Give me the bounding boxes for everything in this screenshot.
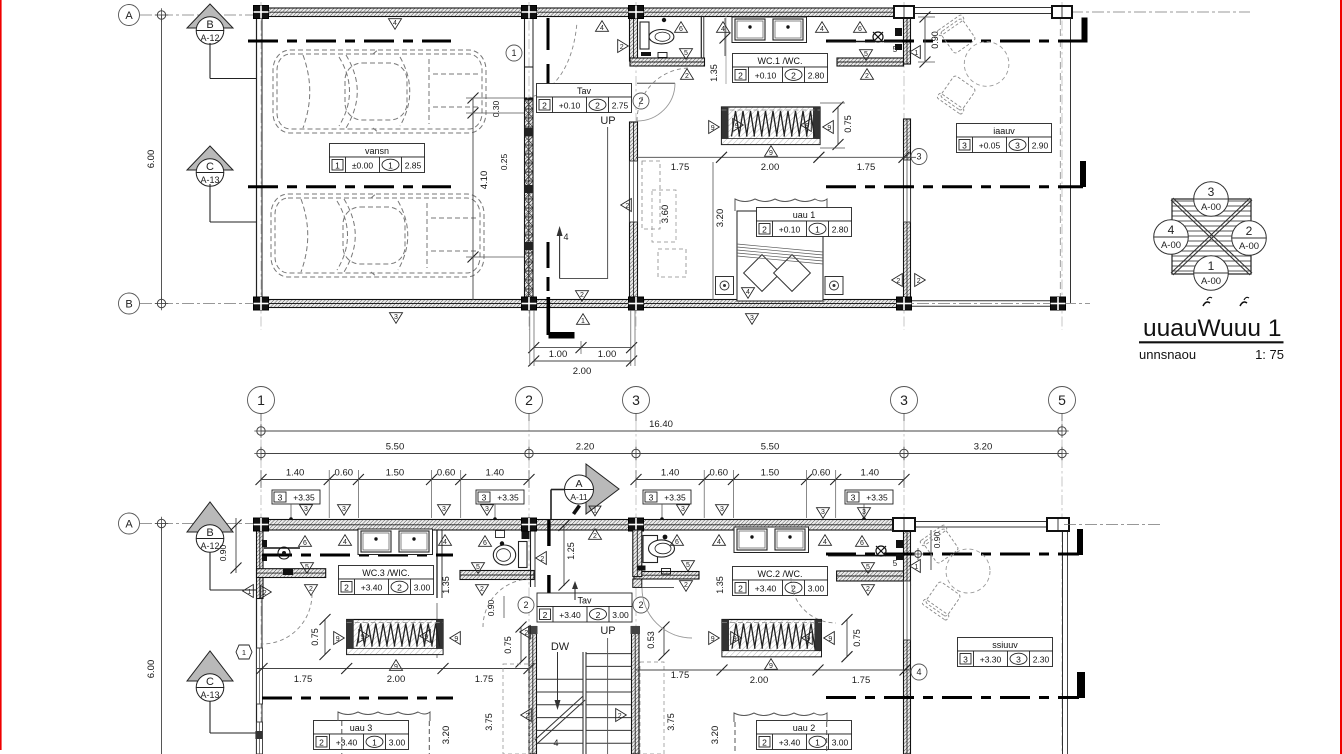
- svg-text:3: 3: [962, 141, 967, 151]
- svg-text:A-00: A-00: [1201, 276, 1221, 287]
- svg-text:vansn: vansn: [365, 146, 389, 156]
- svg-text:WC.2 /WC.: WC.2 /WC.: [758, 569, 803, 579]
- svg-text:3: 3: [851, 493, 856, 503]
- svg-text:9: 9: [361, 634, 365, 641]
- svg-text:6: 6: [679, 26, 683, 33]
- svg-text:3: 3: [485, 506, 489, 513]
- svg-text:5: 5: [476, 564, 480, 571]
- svg-text:1.40: 1.40: [486, 468, 505, 479]
- svg-text:6: 6: [303, 540, 307, 547]
- svg-text:2.80: 2.80: [832, 225, 849, 235]
- svg-text:2: 2: [344, 583, 349, 593]
- svg-text:0.53: 0.53: [646, 631, 656, 649]
- svg-text:2.00: 2.00: [761, 162, 780, 173]
- svg-text:uau 3: uau 3: [350, 723, 373, 733]
- svg-text:C: C: [206, 161, 214, 173]
- svg-text:2: 2: [738, 71, 743, 81]
- svg-text:3: 3: [278, 493, 283, 503]
- svg-text:3: 3: [342, 506, 346, 513]
- svg-text:6.00: 6.00: [146, 660, 157, 679]
- svg-text:5: 5: [305, 564, 309, 571]
- svg-text:0.60: 0.60: [710, 468, 729, 479]
- svg-text:C: C: [206, 676, 214, 688]
- svg-text:2.75: 2.75: [612, 101, 629, 111]
- svg-text:Tav: Tav: [577, 86, 592, 96]
- svg-text:1: 75: 1: 75: [1255, 347, 1284, 362]
- svg-text:4: 4: [746, 289, 750, 296]
- svg-text:2: 2: [263, 590, 267, 597]
- svg-text:0.90: 0.90: [930, 31, 940, 49]
- svg-text:3.00: 3.00: [832, 738, 849, 748]
- svg-text:4.10: 4.10: [479, 171, 490, 190]
- svg-text:+0.10: +0.10: [559, 101, 581, 111]
- svg-text:5.50: 5.50: [761, 442, 780, 453]
- svg-text:uau 1: uau 1: [793, 210, 816, 220]
- svg-text:1: 1: [815, 738, 820, 748]
- svg-text:4: 4: [717, 539, 721, 546]
- svg-text:5.50: 5.50: [386, 442, 405, 453]
- svg-text:3.20: 3.20: [710, 726, 721, 745]
- svg-text:2: 2: [525, 713, 529, 720]
- svg-text:1: 1: [914, 564, 918, 571]
- svg-text:2: 2: [638, 600, 643, 610]
- svg-text:2: 2: [596, 610, 601, 620]
- svg-text:3.75: 3.75: [484, 713, 494, 731]
- svg-text:3.75: 3.75: [666, 713, 676, 731]
- svg-text:2: 2: [865, 73, 869, 80]
- svg-text:B: B: [206, 527, 213, 539]
- svg-text:+3.35: +3.35: [866, 493, 888, 503]
- svg-text:2.00: 2.00: [573, 366, 592, 377]
- svg-text:A: A: [125, 10, 133, 22]
- svg-text:B: B: [206, 19, 213, 31]
- svg-text:2.20: 2.20: [576, 442, 595, 453]
- svg-text:9: 9: [394, 664, 398, 671]
- svg-text:3.20: 3.20: [441, 726, 452, 745]
- svg-text:9: 9: [828, 636, 832, 643]
- svg-text:0.60: 0.60: [437, 468, 456, 479]
- svg-text:1.35: 1.35: [715, 576, 725, 594]
- svg-text:4: 4: [916, 667, 921, 677]
- svg-text:0.90: 0.90: [218, 544, 228, 561]
- svg-text:±0.00: ±0.00: [352, 161, 373, 171]
- svg-text:1: 1: [242, 648, 246, 657]
- svg-text:ssiuuv: ssiuuv: [992, 640, 1018, 650]
- svg-text:3: 3: [963, 655, 968, 665]
- svg-text:2: 2: [620, 44, 624, 51]
- svg-text:1: 1: [257, 392, 265, 408]
- svg-text:9: 9: [769, 663, 773, 670]
- svg-text:6: 6: [858, 26, 862, 33]
- svg-text:1.75: 1.75: [857, 162, 876, 173]
- svg-text:1: 1: [815, 225, 820, 235]
- svg-text:3: 3: [821, 509, 825, 516]
- svg-text:A-13: A-13: [200, 690, 219, 700]
- svg-text:2: 2: [762, 738, 767, 748]
- svg-text:+3.35: +3.35: [497, 493, 519, 503]
- svg-text:2: 2: [618, 713, 622, 720]
- svg-text:3.00: 3.00: [389, 738, 406, 748]
- svg-text:3: 3: [482, 493, 487, 503]
- svg-text:9: 9: [735, 123, 739, 130]
- svg-text:2: 2: [397, 583, 402, 593]
- svg-text:2: 2: [866, 586, 870, 593]
- svg-text:4: 4: [820, 26, 824, 33]
- svg-text:2: 2: [540, 556, 544, 563]
- svg-text:3: 3: [442, 506, 446, 513]
- svg-text:+0.10: +0.10: [755, 71, 777, 81]
- svg-text:3: 3: [632, 392, 640, 408]
- svg-text:2: 2: [896, 278, 900, 285]
- svg-text:+3.40: +3.40: [336, 738, 358, 748]
- svg-text:2.00: 2.00: [750, 675, 769, 686]
- svg-text:9: 9: [769, 150, 773, 157]
- svg-text:+3.30: +3.30: [980, 655, 1002, 665]
- svg-text:2: 2: [738, 584, 743, 594]
- svg-text:3.00: 3.00: [414, 583, 431, 593]
- svg-text:4: 4: [721, 26, 725, 33]
- svg-text:3: 3: [862, 509, 866, 516]
- svg-text:1.40: 1.40: [286, 468, 305, 479]
- svg-text:1.35: 1.35: [709, 64, 719, 82]
- svg-text:3.00: 3.00: [612, 610, 629, 620]
- svg-text:unnsnaou: unnsnaou: [1139, 347, 1196, 362]
- svg-text:9: 9: [424, 634, 428, 641]
- svg-text:1.40: 1.40: [861, 468, 880, 479]
- svg-text:4: 4: [343, 539, 347, 546]
- svg-text:+0.10: +0.10: [779, 225, 801, 235]
- svg-text:0.75: 0.75: [310, 628, 320, 646]
- svg-text:A: A: [125, 519, 133, 531]
- svg-text:3.20: 3.20: [715, 209, 726, 228]
- svg-text:+3.40: +3.40: [361, 583, 383, 593]
- svg-text:1.50: 1.50: [761, 468, 780, 479]
- svg-text:1: 1: [372, 738, 377, 748]
- svg-text:WC.1 /WC.: WC.1 /WC.: [758, 56, 803, 66]
- svg-text:2.80: 2.80: [808, 71, 825, 81]
- svg-text:3.00: 3.00: [808, 584, 825, 594]
- svg-text:2: 2: [685, 73, 689, 80]
- svg-text:9: 9: [806, 636, 810, 643]
- svg-text:2: 2: [625, 203, 629, 210]
- svg-text:3: 3: [900, 392, 908, 408]
- svg-text:+3.35: +3.35: [664, 493, 686, 503]
- svg-text:5: 5: [1058, 392, 1066, 408]
- svg-text:0.90: 0.90: [486, 599, 496, 616]
- svg-text:0.30: 0.30: [491, 100, 501, 117]
- svg-text:1.75: 1.75: [294, 674, 313, 685]
- svg-text:0.25: 0.25: [499, 153, 509, 170]
- svg-text:2: 2: [524, 630, 528, 637]
- svg-text:A-11: A-11: [570, 492, 588, 502]
- svg-text:+3.40: +3.40: [755, 584, 777, 594]
- svg-text:6: 6: [483, 540, 487, 547]
- svg-text:WC.3 /WIC.: WC.3 /WIC.: [362, 568, 410, 578]
- svg-text:iaauv: iaauv: [993, 126, 1015, 136]
- svg-text:5: 5: [893, 45, 898, 54]
- svg-text:1.50: 1.50: [386, 468, 405, 479]
- svg-text:9: 9: [336, 636, 340, 643]
- svg-text:3: 3: [1016, 655, 1021, 665]
- svg-text:2: 2: [1246, 224, 1253, 238]
- svg-text:3: 3: [394, 314, 398, 321]
- svg-text:2.30: 2.30: [1033, 655, 1050, 665]
- svg-text:1.40: 1.40: [661, 468, 680, 479]
- svg-text:A-00: A-00: [1201, 202, 1221, 213]
- svg-text:9: 9: [805, 123, 809, 130]
- svg-text:16.40: 16.40: [649, 419, 673, 430]
- svg-text:9: 9: [454, 636, 458, 643]
- svg-text:3.60: 3.60: [660, 205, 671, 224]
- svg-text:0.75: 0.75: [503, 636, 513, 654]
- svg-text:2: 2: [580, 292, 584, 299]
- svg-text:0.60: 0.60: [335, 468, 354, 479]
- svg-text:4: 4: [443, 539, 447, 546]
- svg-text:4: 4: [553, 738, 558, 748]
- svg-text:A-00: A-00: [1161, 240, 1181, 251]
- svg-text:0.75: 0.75: [852, 629, 862, 647]
- svg-text:2: 2: [523, 600, 528, 610]
- svg-text:+3.40: +3.40: [779, 738, 801, 748]
- svg-text:A: A: [575, 478, 582, 490]
- svg-text:DW: DW: [551, 641, 570, 653]
- svg-text:0.60: 0.60: [812, 468, 831, 479]
- svg-text:UP: UP: [600, 115, 615, 127]
- svg-text:2: 2: [542, 101, 547, 111]
- svg-text:A-12: A-12: [200, 33, 219, 43]
- svg-text:1.00: 1.00: [598, 349, 617, 360]
- svg-text:2: 2: [684, 582, 688, 589]
- svg-text:2: 2: [917, 278, 921, 285]
- svg-text:4: 4: [393, 20, 397, 27]
- svg-text:uau 2: uau 2: [793, 723, 816, 733]
- svg-text:5: 5: [864, 51, 868, 58]
- svg-text:B: B: [125, 299, 132, 311]
- svg-text:3.20: 3.20: [974, 442, 993, 453]
- svg-text:5: 5: [866, 564, 870, 571]
- svg-text:1.75: 1.75: [852, 675, 871, 686]
- svg-text:1.00: 1.00: [549, 349, 568, 360]
- svg-text:4: 4: [1168, 223, 1175, 237]
- svg-text:3: 3: [720, 506, 724, 513]
- svg-text:1: 1: [1208, 259, 1215, 273]
- svg-text:1: 1: [914, 50, 918, 57]
- svg-text:+0.05: +0.05: [979, 141, 1001, 151]
- svg-text:1.75: 1.75: [475, 674, 494, 685]
- svg-text:2: 2: [595, 101, 600, 111]
- svg-text:9: 9: [711, 636, 715, 643]
- svg-text:3: 3: [304, 506, 308, 513]
- svg-text:9: 9: [827, 125, 831, 132]
- svg-text:2: 2: [319, 738, 324, 748]
- svg-text:1: 1: [593, 507, 597, 514]
- svg-text:2: 2: [480, 586, 484, 593]
- svg-text:2.90: 2.90: [1032, 141, 1049, 151]
- svg-text:uuauWuuu 1: uuauWuuu 1: [1143, 315, 1282, 342]
- svg-text:1.25: 1.25: [566, 542, 576, 560]
- svg-text:9: 9: [733, 636, 737, 643]
- svg-text:0.75: 0.75: [843, 115, 853, 133]
- svg-text:3: 3: [916, 152, 921, 162]
- svg-text:2: 2: [791, 71, 796, 81]
- svg-text:1.35: 1.35: [441, 576, 451, 594]
- svg-text:2: 2: [593, 533, 597, 540]
- svg-text:9: 9: [711, 125, 715, 132]
- svg-text:1.75: 1.75: [671, 670, 690, 681]
- svg-text:3: 3: [649, 493, 654, 503]
- svg-text:4: 4: [823, 539, 827, 546]
- svg-text:A-12: A-12: [200, 541, 219, 551]
- svg-text:1.75: 1.75: [671, 162, 690, 173]
- svg-text:2: 2: [309, 586, 313, 593]
- svg-text:3: 3: [750, 315, 754, 322]
- svg-text:2.00: 2.00: [387, 674, 406, 685]
- svg-text:6.00: 6.00: [146, 150, 157, 169]
- svg-text:1: 1: [335, 161, 340, 171]
- svg-text:5: 5: [893, 559, 898, 568]
- svg-text:3: 3: [681, 506, 685, 513]
- svg-text:4: 4: [563, 232, 568, 242]
- svg-text:6: 6: [860, 540, 864, 547]
- svg-text:3: 3: [1208, 185, 1215, 199]
- svg-text:2: 2: [762, 225, 767, 235]
- svg-text:A-13: A-13: [200, 175, 219, 185]
- svg-text:2: 2: [525, 392, 533, 408]
- svg-text:4: 4: [600, 25, 604, 32]
- svg-text:UP: UP: [600, 625, 615, 637]
- svg-text:3: 3: [1015, 141, 1020, 151]
- svg-text:1: 1: [247, 589, 251, 596]
- svg-text:+3.40: +3.40: [559, 610, 581, 620]
- svg-text:1: 1: [581, 318, 585, 325]
- svg-text:+3.35: +3.35: [293, 493, 315, 503]
- svg-text:2.85: 2.85: [405, 161, 422, 171]
- svg-text:A-00: A-00: [1239, 241, 1259, 252]
- svg-text:5: 5: [684, 50, 688, 57]
- svg-text:Tav: Tav: [577, 595, 592, 605]
- svg-text:6: 6: [675, 539, 679, 546]
- svg-text:1: 1: [388, 161, 393, 171]
- svg-text:1: 1: [511, 48, 516, 58]
- svg-text:5: 5: [686, 562, 690, 569]
- svg-text:2: 2: [543, 610, 548, 620]
